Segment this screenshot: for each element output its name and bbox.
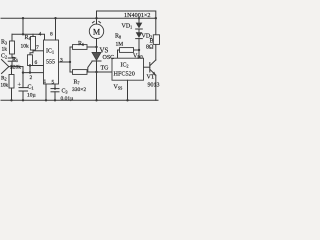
wire bottom ground rail: [1, 99, 158, 101]
wire R6/R7 junction vertical: [69, 47, 71, 72]
svg-text:TG: TG: [101, 66, 110, 72]
node rail-R4 junction: [22, 17, 24, 19]
node cathode/TG: [95, 71, 97, 73]
wire rail down to R4 row: [22, 18, 24, 34]
diode VD2: [138, 29, 140, 32]
svg-text:HFC520: HFC520: [114, 71, 135, 78]
speaker B: [153, 35, 159, 45]
svg-text:R8: R8: [115, 34, 121, 40]
node pin3 R6/R7 junction: [69, 61, 71, 63]
svg-text:1M: 1M: [116, 42, 124, 48]
svg-text:C1: C1: [28, 85, 34, 91]
node mic-R3: [11, 65, 13, 67]
transistor VT 9013: [144, 66, 150, 68]
svg-text:7: 7: [36, 45, 39, 51]
svg-text:VSS: VSS: [114, 85, 123, 91]
svg-text:0.01µ: 0.01µ: [61, 96, 74, 102]
svg-text:10k: 10k: [1, 84, 9, 89]
node C1 ground: [22, 99, 24, 101]
svg-text:VT: VT: [147, 75, 155, 81]
wire R4-R5 link: [30, 50, 33, 55]
capacitor C1: [19, 87, 28, 89]
svg-text:C2: C2: [1, 54, 7, 60]
resistor R4: [32, 34, 34, 36]
svg-text:OSC: OSC: [103, 55, 115, 61]
op-amp IC1 555 box: [44, 40, 59, 84]
node pin2 junction: [22, 71, 24, 73]
wire pin 7 line: [33, 50, 44, 52]
svg-text:VD1: VD1: [122, 24, 133, 30]
svg-text:9013: 9013: [148, 83, 160, 89]
wire emitter to ground: [155, 75, 157, 100]
svg-text:R7: R7: [74, 80, 80, 86]
node at y34: [22, 33, 24, 35]
svg-text:8: 8: [50, 32, 53, 38]
wire upper right line from motor top to speaker: [97, 11, 156, 35]
svg-text:330×2: 330×2: [72, 87, 86, 93]
resistor R2: [11, 67, 13, 75]
wire pin 5: [54, 84, 56, 89]
svg-text:VDD: VDD: [133, 54, 143, 60]
resistor R5: [28, 55, 33, 66]
node pin8 rail junction: [54, 17, 56, 19]
svg-text:8Ω: 8Ω: [146, 45, 154, 51]
svg-text:10k: 10k: [21, 44, 30, 50]
wire horizontal to pin 4: [12, 34, 45, 40]
svg-text:4: 4: [39, 32, 42, 38]
capacitor C2: [8, 57, 16, 59]
resistor R6: [70, 46, 73, 48]
svg-text:R2: R2: [1, 76, 7, 82]
svg-text:6: 6: [35, 60, 38, 66]
capacitor C3: [51, 88, 59, 90]
svg-text:M: M: [93, 28, 100, 37]
wire diode chain to VDD: [138, 39, 140, 59]
svg-text:555: 555: [46, 60, 55, 66]
wire pin 8 stub: [55, 18, 57, 40]
wire SCR cathode to ground: [96, 61, 98, 100]
op IC2 HFC520 box: [112, 58, 144, 80]
wire VSS to ground: [127, 80, 129, 100]
node cathode ground: [95, 99, 97, 101]
wire pin 3 output: [59, 61, 71, 63]
svg-text:IC1: IC1: [46, 49, 54, 55]
svg-text:1k: 1k: [2, 47, 8, 53]
wire R5 bottom to pin2 line: [29, 66, 31, 73]
node R6/anode junction: [95, 46, 97, 48]
svg-text:R3: R3: [1, 40, 7, 46]
diode VD1: [138, 17, 140, 19]
svg-text:2: 2: [30, 75, 33, 81]
svg-text:220k: 220k: [10, 65, 21, 71]
node speaker/V+ rail: [155, 17, 157, 19]
svg-text:IC2: IC2: [121, 63, 129, 69]
wire SCR gate: [88, 61, 92, 72]
microphone arrow: [2, 60, 9, 67]
svg-text:C3: C3: [62, 89, 68, 95]
svg-text:5: 5: [52, 80, 55, 86]
svg-text:R6: R6: [78, 41, 84, 47]
wire mic line: [9, 66, 23, 68]
svg-text:10µ: 10µ: [27, 93, 36, 99]
svg-text:R4: R4: [25, 35, 31, 41]
svg-text:R5: R5: [12, 57, 18, 63]
wire pin 1 to ground: [45, 84, 47, 100]
wire top V+ rail: [1, 17, 156, 19]
wire motor to SCR anode: [96, 39, 98, 53]
svg-text:3: 3: [60, 58, 63, 64]
svg-text:1N4001×2: 1N4001×2: [124, 12, 151, 19]
resistor R3: [11, 34, 13, 41]
node motor/V+ rail: [95, 17, 97, 19]
wire pin 6 line: [30, 65, 44, 67]
resistor R7: [70, 71, 73, 73]
motor M: [89, 24, 103, 38]
wire pin 2: [23, 72, 44, 74]
wire mic node to pin2/C1: [22, 67, 24, 88]
wire collector to speaker: [155, 45, 157, 61]
